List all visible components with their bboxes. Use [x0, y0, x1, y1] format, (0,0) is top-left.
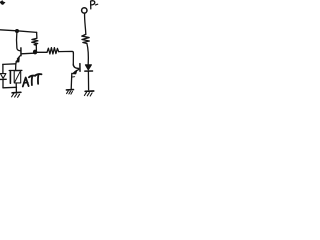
resistor R3 (horizontal) [47, 48, 59, 54]
wire top rail [0, 30, 37, 33]
ground G3 hatches [12, 94, 20, 98]
wire D1 down to bottom wire [2, 80, 4, 88]
wire rail corner down to R1 [36, 32, 38, 38]
label P [91, 1, 95, 9]
transistor Q2 collector bend [73, 64, 79, 68]
node junction dot B (base node) [33, 50, 37, 55]
diode D2 bar [85, 70, 93, 72]
wire node B to R3 [37, 51, 47, 53]
wire box bottom to ground [15, 83, 17, 92]
wire R1 to node B [35, 45, 36, 51]
diode D2 triangle [85, 65, 91, 70]
transistor Q1 base bar [20, 48, 22, 56]
wire D2 down to ground [87, 72, 89, 90]
label ATT: letter A [23, 78, 29, 87]
transistor Q1 emitter arrow [17, 56, 20, 59]
wire R3 to right corner [59, 51, 74, 53]
terminal circle P [82, 8, 87, 13]
label P dash [96, 3, 98, 6]
resistor R2 [82, 34, 90, 43]
wire attenuator top connector [9, 69, 22, 71]
wire P terminal down to R2 [85, 13, 86, 34]
corner scribble mark [0, 0, 6, 5]
wire Q1 base lead [21, 52, 34, 55]
resistor R1 [32, 38, 38, 45]
attenuator arrow diagonal [15, 72, 20, 82]
transistor Q2 emitter arrow [75, 69, 79, 71]
label ATT: letter T1 [29, 76, 35, 78]
wire R2 to diode D2 [87, 44, 88, 65]
diode D1 triangle [0, 74, 6, 79]
stray tick near Q2 emitter [72, 76, 74, 78]
attenuator left bar [9, 71, 11, 84]
wire Q1 emitter horizontal [3, 63, 16, 66]
ground G3 bar [12, 91, 21, 94]
node junction dot on rail [15, 29, 19, 33]
ground G2 hatches [84, 92, 92, 96]
diode D1 bar [0, 78, 6, 80]
ground G1 bar [66, 89, 73, 91]
wire Q2 emitter down [70, 73, 73, 89]
ground G1 hatches [67, 91, 73, 94]
wire left corner down [2, 64, 4, 73]
wire Q1 collector (down from rail) [17, 32, 21, 51]
wire bottom left horizontal [3, 86, 17, 89]
wire down right-middle branch [72, 53, 74, 65]
transistor Q2 base bar [79, 64, 81, 72]
label ATT: letter T2 [35, 74, 41, 76]
ground G2 bar [85, 90, 94, 92]
attenuator ATT box [14, 71, 21, 83]
wire emitter node down to attenuator [15, 64, 17, 70]
